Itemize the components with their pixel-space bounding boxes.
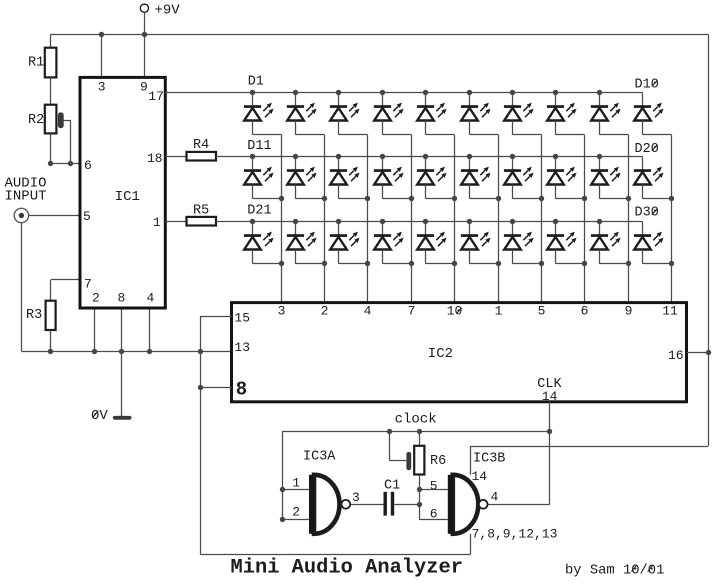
wire R6 wiper tap	[389, 432, 391, 461]
wire R5 to row 3 LEDs	[216, 221, 643, 223]
junction rail R3	[48, 349, 53, 354]
LED D25	[417, 222, 447, 264]
LED D23	[330, 222, 360, 264]
wire +9V stub / IC1 pin 9 stub	[144, 12, 146, 77]
svg-text:16: 16	[668, 348, 684, 363]
LED D10	[634, 93, 664, 135]
junction rail pin2	[92, 349, 97, 354]
svg-text:11: 11	[662, 304, 678, 319]
wire IC1 pin 2 stub	[94, 308, 96, 351]
svg-text:clock: clock	[395, 411, 437, 427]
svg-text:2: 2	[92, 291, 100, 306]
LED D2	[287, 93, 317, 135]
junction IC3A pin 2	[280, 517, 285, 522]
junction rail pin8 / 0V	[119, 349, 124, 354]
wire column 8 cathode bus	[556, 135, 588, 303]
wire IC3B pin 6 stub	[419, 519, 448, 521]
wire jack ground down	[21, 223, 23, 351]
wire column 5 cathode bus	[426, 135, 458, 303]
slash of D10 zero	[652, 80, 658, 86]
LED D20	[634, 157, 664, 199]
svg-text:5: 5	[83, 209, 91, 224]
svg-text:R2: R2	[28, 113, 44, 128]
wire clock line	[282, 431, 550, 433]
svg-text:IC1: IC1	[115, 189, 140, 205]
LED D22	[287, 222, 317, 264]
LED D15	[417, 157, 447, 199]
wire pin 18 to R4	[165, 156, 186, 158]
IC3A output bubble	[341, 500, 350, 509]
R2 wiper contact	[58, 112, 64, 128]
svg-text:15: 15	[234, 310, 250, 325]
wire IC2 CLK pin 14 stub / down to gate output	[549, 402, 551, 505]
svg-text:D11: D11	[247, 139, 271, 154]
wire R2 wiper to pin 6	[64, 120, 71, 122]
svg-text:by Sam 10/01: by Sam 10/01	[565, 563, 664, 579]
NAND gate IC3A	[314, 475, 340, 534]
wire IC2 pin 16 stub	[687, 352, 709, 354]
LED D1	[244, 93, 274, 135]
svg-text:7: 7	[408, 304, 416, 319]
svg-text:14: 14	[472, 469, 488, 484]
wire column 10 cathode bus	[643, 135, 675, 303]
wire to IC1 pin 6	[51, 163, 80, 165]
wire column 9 cathode bus	[600, 135, 632, 303]
LED D30	[634, 222, 664, 264]
wire IC1 pin 4 stub	[149, 308, 151, 351]
slashes of byline zeros	[632, 566, 637, 572]
LED D14	[374, 157, 404, 199]
junction +9V rail / pin3	[99, 32, 104, 37]
slash of D20 zero	[652, 145, 658, 151]
svg-text:IC2: IC2	[428, 346, 453, 362]
wire IC3A input vertical	[282, 432, 284, 520]
capacitor C1	[384, 492, 387, 516]
junction clock / wiper	[387, 429, 392, 434]
svg-text:R3: R3	[26, 308, 42, 323]
svg-text:R6: R6	[430, 454, 446, 469]
junction rail pin4	[147, 349, 152, 354]
LED D4	[374, 93, 404, 135]
junction +9V rail / pin9	[142, 32, 147, 37]
LED D18	[547, 157, 577, 199]
IC2 side pin labels	[234, 310, 683, 404]
junction R2 bottom	[48, 161, 53, 166]
LED D21	[244, 222, 274, 264]
svg-text:3: 3	[98, 80, 106, 95]
wire IC3B output to CLK vertical	[488, 504, 550, 506]
resistor R3	[46, 301, 56, 330]
svg-text:10: 10	[447, 304, 463, 319]
svg-text:3: 3	[278, 304, 286, 319]
svg-text:D30: D30	[635, 206, 659, 221]
wire to 0V	[121, 351, 123, 416]
svg-text:1: 1	[495, 304, 503, 319]
potentiometer R2	[45, 105, 57, 134]
svg-text:5: 5	[538, 304, 546, 319]
slash of 0V zero	[93, 411, 99, 418]
wire bottom return horizontal	[200, 554, 470, 556]
svg-text:13: 13	[234, 340, 250, 355]
wire column 4 cathode bus	[383, 135, 415, 303]
junction dots row 3	[250, 219, 602, 224]
junction clock / R6	[417, 429, 422, 434]
IC1 pin labels	[83, 80, 164, 306]
svg-text:R5: R5	[193, 204, 209, 219]
slash of IC2 pin10 zero	[457, 308, 462, 314]
svg-text:4: 4	[364, 304, 372, 319]
svg-text:4: 4	[147, 291, 155, 306]
LED D27	[504, 222, 534, 264]
resistor R1	[45, 48, 57, 78]
LED D12	[287, 157, 317, 199]
IC2 top pin numbers	[278, 304, 678, 319]
svg-text:D20: D20	[635, 142, 659, 157]
wire C1 to IC3B	[394, 504, 419, 506]
LED D5	[417, 93, 447, 135]
svg-text:D10: D10	[635, 77, 659, 92]
svg-text:D1: D1	[248, 75, 264, 90]
wire column 1 cathode bus	[253, 135, 285, 303]
wire pin 1 to R5	[165, 221, 186, 223]
wire right return horizontal	[471, 446, 709, 448]
svg-text:1: 1	[292, 476, 300, 491]
LED D7	[504, 93, 534, 135]
wire IC2 pin 8 stub	[200, 387, 231, 389]
svg-text:6: 6	[84, 158, 92, 173]
wire IC3A pin 2 stub	[282, 519, 309, 521]
junction rail left vertical	[198, 349, 203, 354]
NAND gate IC3B	[453, 475, 479, 534]
LED D24	[374, 222, 404, 264]
wire +9V top rail	[51, 34, 708, 36]
wire column 7 cathode bus	[513, 135, 545, 303]
LED D17	[504, 157, 534, 199]
svg-text:17: 17	[148, 89, 164, 104]
+9V terminal	[140, 4, 148, 12]
junction C1 / IC3B input	[417, 502, 422, 507]
svg-text:9: 9	[625, 304, 633, 319]
LED D13	[330, 157, 360, 199]
svg-text:Mini Audio Analyzer: Mini Audio Analyzer	[231, 557, 464, 580]
resistor R5	[187, 217, 217, 226]
wire column 3 cathode bus	[339, 135, 371, 303]
svg-text:7: 7	[84, 277, 92, 292]
IC3B output bubble	[479, 500, 488, 509]
wire R4 to row 2 LEDs	[216, 156, 643, 158]
svg-text:5: 5	[430, 478, 438, 493]
svg-text:1: 1	[153, 215, 161, 230]
wire ground rail	[21, 351, 231, 353]
svg-text:IC3A: IC3A	[303, 450, 336, 465]
svg-text:7,8,9,12,13: 7,8,9,12,13	[472, 527, 558, 542]
ground 0V symbol	[113, 416, 132, 420]
svg-text:R1: R1	[28, 56, 44, 71]
junction dots row 2	[250, 154, 602, 159]
LED D3	[330, 93, 360, 135]
LED D19	[591, 157, 621, 199]
LED D28	[547, 222, 577, 264]
wire IC1 pin 3 stub	[101, 34, 103, 77]
wire column 2 cathode bus	[296, 135, 328, 303]
wire IC3B pin 5 stub	[419, 489, 448, 491]
wire return vertical below IC3B	[470, 534, 472, 555]
wire column 6 cathode bus	[470, 135, 502, 303]
svg-text:8: 8	[236, 379, 247, 401]
display driver IC2	[232, 303, 687, 402]
wire right vertical from +9V rail	[708, 34, 710, 446]
junction left vertical pin 8	[198, 385, 203, 390]
LED D29	[591, 222, 621, 264]
wire jack to IC1 pin 5	[29, 215, 80, 217]
svg-text:9: 9	[140, 80, 148, 95]
trimmer R6	[414, 446, 424, 475]
svg-text:IC3B: IC3B	[473, 452, 505, 467]
wire R2 bottom	[50, 133, 52, 163]
LED D16	[461, 157, 491, 199]
LED D9	[591, 93, 621, 135]
svg-text:2: 2	[321, 304, 329, 319]
svg-text:+9V: +9V	[155, 2, 181, 18]
wire IC1 pin 8 stub	[121, 308, 123, 351]
wire left vertical (pins 15/13/8)	[200, 316, 202, 554]
LED D11	[244, 157, 274, 199]
LED D26	[461, 222, 491, 264]
resistor R4	[187, 152, 217, 161]
R6 wiper contact	[406, 452, 411, 470]
svg-text:R4: R4	[193, 138, 209, 153]
svg-text:6: 6	[430, 506, 438, 521]
LED D8	[547, 93, 577, 135]
wire rail to R1	[50, 34, 52, 47]
svg-text:C1: C1	[384, 478, 400, 493]
wire IC2 pin 15 stub	[200, 316, 231, 318]
svg-text:18: 18	[147, 151, 163, 166]
wire IC3A output to C1	[350, 504, 383, 506]
wire return vertical above IC3B	[470, 446, 472, 475]
wire R6 bottom to IC3B inputs	[419, 475, 421, 520]
svg-text:8: 8	[118, 291, 126, 306]
IC3A pin numbers	[292, 476, 360, 520]
wire R6 top	[419, 432, 421, 446]
input jack J1	[14, 208, 28, 222]
junction R6 / pin 5	[417, 487, 422, 492]
wire row 1 (pin 17) to LEDs	[165, 92, 642, 94]
op-amp/driver IC1	[80, 77, 165, 308]
svg-text:6: 6	[581, 304, 589, 319]
junction dots row 1	[250, 90, 602, 95]
svg-text:D21: D21	[247, 204, 271, 219]
wire R1 to R2	[50, 77, 52, 104]
svg-text:2: 2	[292, 505, 300, 520]
IC3B pin numbers	[430, 478, 499, 521]
junction IC3A pin 1	[280, 487, 285, 492]
svg-text:3: 3	[352, 490, 360, 505]
wire IC3A pin 1 stub	[282, 489, 309, 491]
wire IC1 pin 7 to R3	[51, 279, 80, 281]
junction wiper / pin 6	[68, 161, 73, 166]
junction clock / CLK	[547, 429, 552, 434]
slash of D30 zero	[652, 209, 658, 215]
svg-text:14: 14	[542, 389, 558, 404]
LED D6	[461, 93, 491, 135]
svg-text:INPUT: INPUT	[5, 188, 47, 204]
svg-text:4: 4	[491, 490, 499, 505]
wire R3 to ground rail	[50, 330, 52, 351]
junction pin 16 / right vertical	[706, 350, 711, 355]
